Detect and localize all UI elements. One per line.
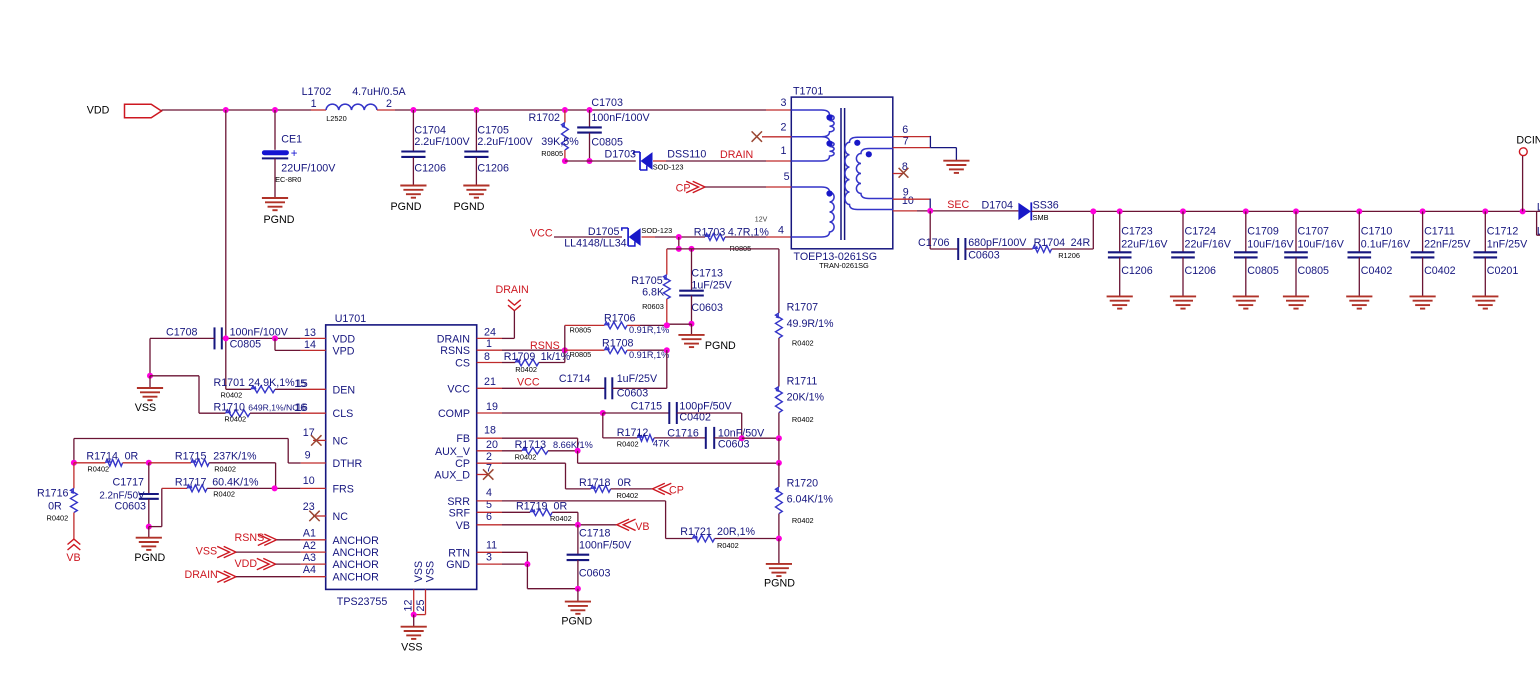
svg-text:R1712: R1712: [617, 427, 649, 439]
svg-text:9: 9: [305, 450, 311, 462]
svg-text:100nF/50V: 100nF/50V: [579, 539, 632, 551]
svg-text:C1714: C1714: [559, 373, 591, 385]
svg-text:R1706: R1706: [604, 313, 636, 325]
svg-text:DRAIN: DRAIN: [720, 149, 753, 161]
capacitor C1713: [679, 249, 732, 324]
svg-text:R0402: R0402: [213, 489, 235, 498]
svg-text:25: 25: [415, 600, 427, 612]
svg-text:C1705: C1705: [477, 124, 509, 136]
svg-text:R1716: R1716: [37, 487, 69, 499]
svg-text:10uF/16V: 10uF/16V: [1247, 239, 1294, 251]
wire 12V divider top: [778, 249, 780, 313]
svg-text:FRS: FRS: [333, 483, 354, 495]
svg-text:R0402: R0402: [792, 516, 814, 525]
capacitor C1717: [99, 463, 158, 527]
ground under C1709: [1233, 296, 1259, 308]
svg-text:1: 1: [780, 145, 786, 157]
node C1707-junction: [1293, 208, 1299, 214]
svg-text:R1206: R1206: [1058, 251, 1080, 260]
svg-text:C1713: C1713: [691, 268, 723, 280]
svg-text:R1705: R1705: [631, 275, 663, 287]
svg-text:VB: VB: [66, 552, 80, 564]
wire R1703 to T1701 pin4: [725, 236, 791, 238]
node R1708-right: [664, 347, 670, 353]
ground under C1710: [1346, 296, 1372, 308]
svg-text:2: 2: [486, 451, 492, 463]
svg-text:22uF/16V: 22uF/16V: [1185, 239, 1232, 251]
svg-text:D1705: D1705: [588, 226, 620, 238]
wire R1705 to C1713 bottom: [667, 324, 692, 335]
pin labels T1701 right: [902, 124, 914, 207]
svg-text:3: 3: [486, 552, 492, 564]
node CE1-junction: [272, 107, 278, 113]
resistor R1711: [776, 376, 825, 439]
svg-text:C0603: C0603: [691, 302, 723, 314]
svg-text:C1709: C1709: [1247, 226, 1279, 238]
svg-text:R0402: R0402: [617, 491, 639, 500]
port VDD anchor: [235, 558, 326, 570]
svg-text:C1724: C1724: [1185, 226, 1217, 238]
svg-text:C1703: C1703: [591, 97, 623, 109]
ground PGND under C1705: [454, 186, 490, 213]
resistor R1701: [214, 377, 326, 400]
resistor R1705: [631, 249, 670, 326]
svg-text:8.66K/1%: 8.66K/1%: [553, 440, 593, 450]
node 12V-junction: [676, 234, 682, 240]
capacitor C1714: [477, 350, 667, 399]
svg-text:R1721: R1721: [680, 526, 712, 538]
ground VSS under U1701: [401, 615, 427, 654]
svg-text:RSNS: RSNS: [440, 345, 470, 357]
node VDD-junction: [223, 107, 229, 113]
svg-text:18: 18: [484, 425, 496, 437]
svg-text:DSS110: DSS110: [667, 149, 706, 161]
resistor R1707: [776, 302, 835, 387]
svg-text:SOD-123: SOD-123: [641, 226, 672, 235]
svg-text:DRAIN: DRAIN: [496, 284, 529, 296]
svg-text:ANCHOR: ANCHOR: [333, 559, 380, 571]
svg-text:C0603: C0603: [617, 388, 649, 400]
resistor R1720: [776, 478, 834, 539]
svg-text:SEC: SEC: [947, 199, 969, 211]
wire divider middle: [778, 438, 780, 463]
svg-text:39K,5%: 39K,5%: [541, 136, 579, 148]
wire DRAIN to pin24: [477, 311, 515, 339]
svg-text:10: 10: [303, 475, 315, 487]
resistor R1715: [149, 451, 276, 489]
svg-text:R1720: R1720: [787, 478, 819, 490]
svg-text:R1709: R1709: [504, 351, 536, 363]
port DRAIN above U1701: [496, 284, 529, 311]
svg-text:FB: FB: [456, 433, 470, 445]
resistor R1704 snubber: [1033, 211, 1094, 259]
pin VSS stubs U1701: [403, 561, 437, 615]
svg-text:DCIN: DCIN: [1516, 135, 1540, 147]
svg-text:1: 1: [486, 338, 492, 350]
svg-text:10uF/16V: 10uF/16V: [1298, 239, 1345, 251]
svg-text:R0402: R0402: [224, 414, 246, 423]
svg-text:PGND: PGND: [764, 577, 795, 589]
label right edge nets: [1537, 201, 1540, 237]
svg-text:16: 16: [296, 402, 308, 414]
wire divider to R1720: [778, 463, 780, 487]
svg-text:PGND: PGND: [134, 552, 165, 564]
wire VCC to D1705: [554, 236, 622, 238]
svg-text:15: 15: [296, 378, 308, 390]
svg-text:C1206: C1206: [477, 163, 509, 175]
transformer T1701 box: [791, 86, 893, 271]
svg-text:R1718: R1718: [579, 477, 611, 489]
ground PGND under R1720: [764, 539, 795, 590]
capacitor C1705: [464, 110, 533, 186]
svg-text:C0805: C0805: [591, 137, 623, 149]
svg-text:SMB: SMB: [1033, 213, 1049, 222]
svg-text:11: 11: [486, 540, 497, 552]
wire RSNS pin1: [477, 340, 565, 352]
svg-text:0R: 0R: [618, 477, 632, 489]
svg-text:22uF/16V: 22uF/16V: [1121, 239, 1168, 251]
svg-text:R0402: R0402: [221, 391, 243, 400]
svg-text:COMP: COMP: [438, 408, 470, 420]
wire FB pin18: [477, 438, 578, 451]
svg-text:0.91R,1%: 0.91R,1%: [629, 325, 669, 335]
capacitor C1710: [1348, 211, 1411, 296]
svg-text:R1715: R1715: [175, 451, 207, 463]
svg-text:C1723: C1723: [1121, 226, 1153, 238]
svg-text:R1711: R1711: [787, 376, 818, 388]
node R1702-junction: [562, 107, 568, 113]
svg-text:4.7uH/0.5A: 4.7uH/0.5A: [352, 86, 406, 98]
label VCC net: [530, 228, 553, 240]
svg-text:20: 20: [486, 439, 498, 451]
svg-text:CS: CS: [455, 358, 470, 370]
svg-text:C1716: C1716: [667, 428, 699, 440]
resistor R1713: [477, 439, 593, 461]
svg-text:VSS: VSS: [135, 402, 156, 414]
wire T1701 pin7: [893, 147, 931, 149]
svg-text:20K/1%: 20K/1%: [787, 392, 825, 404]
resistor R1719: [477, 501, 578, 525]
capacitor C1703: [577, 97, 650, 161]
port VDD: [87, 104, 162, 117]
svg-text:4: 4: [778, 225, 784, 237]
svg-text:VCC: VCC: [447, 383, 470, 395]
wire D1705 to R1703: [642, 236, 705, 238]
svg-text:D1704: D1704: [982, 200, 1014, 212]
node R1704-junction: [1090, 208, 1096, 214]
node C1713-bottom: [689, 321, 695, 327]
svg-text:C1710: C1710: [1361, 226, 1393, 238]
svg-text:+: +: [291, 148, 298, 160]
svg-text:AUX_V: AUX_V: [435, 446, 471, 458]
inductor L1702: [302, 86, 407, 123]
svg-text:LL4148/LL34: LL4148/LL34: [564, 238, 626, 250]
svg-text:D1703: D1703: [605, 149, 637, 161]
node aux junctions: [676, 246, 695, 252]
pin labels T1701 left: [778, 97, 790, 237]
svg-text:ANCHOR: ANCHOR: [333, 535, 380, 547]
resistor R1714: [74, 451, 149, 474]
port VB right: [617, 519, 650, 533]
svg-text:TPS23755: TPS23755: [337, 596, 388, 608]
svg-text:SRF: SRF: [449, 507, 471, 519]
svg-text:A4: A4: [303, 564, 316, 576]
node C1715-C1716 junction: [739, 435, 745, 441]
wire VPD branch: [275, 338, 326, 350]
node divider-FB2-junction: [776, 460, 782, 466]
wire VB pin6: [477, 524, 617, 526]
wire VSS to R1710: [150, 376, 199, 413]
svg-text:PGND: PGND: [705, 340, 736, 352]
svg-text:DRAIN: DRAIN: [185, 569, 218, 581]
svg-text:VSS: VSS: [413, 561, 425, 582]
svg-text:R0805: R0805: [570, 350, 592, 359]
wire CP pin2: [477, 463, 591, 489]
svg-text:6: 6: [902, 124, 908, 136]
svg-text:6.8K: 6.8K: [642, 287, 665, 299]
svg-text:23: 23: [303, 501, 315, 513]
svg-text:PGND: PGND: [391, 201, 422, 213]
winding T1701 primary 3-2: [791, 110, 834, 137]
ground PGND under C1718: [561, 589, 592, 628]
svg-text:R0402: R0402: [515, 365, 537, 374]
svg-text:C0201: C0201: [1487, 265, 1519, 277]
wire 12V branch down: [678, 237, 680, 249]
resistor R1718: [579, 477, 653, 500]
ground under C1723: [1107, 296, 1133, 308]
svg-text:RTN: RTN: [448, 547, 470, 559]
resistor R1716: [37, 463, 77, 539]
wire C1708 to VSS: [149, 338, 151, 375]
svg-text:3: 3: [780, 97, 786, 109]
ground PGND under C1713: [678, 335, 736, 352]
svg-text:R0805: R0805: [541, 149, 563, 158]
node C1710-junction: [1356, 208, 1362, 214]
svg-text:14: 14: [304, 339, 316, 351]
node R1705-bottom: [664, 322, 670, 328]
svg-text:NC: NC: [333, 511, 349, 523]
svg-text:2: 2: [780, 122, 786, 134]
node VSS-ground-junction: [147, 373, 153, 379]
resistor R1712 and capacitor C1716: [603, 413, 765, 451]
svg-text:C0603: C0603: [579, 567, 611, 579]
svg-text:R0805: R0805: [570, 325, 592, 334]
pin2 T1701 no-connect: [752, 131, 792, 141]
svg-text:R0402: R0402: [717, 541, 739, 550]
svg-text:R1701: R1701: [214, 377, 246, 389]
svg-text:680pF/100V: 680pF/100V: [968, 237, 1027, 249]
svg-text:13: 13: [304, 327, 316, 339]
svg-text:T1701: T1701: [793, 86, 823, 98]
port CP at T1701 pin5: [676, 181, 705, 194]
svg-text:SOD-123: SOD-123: [653, 163, 684, 172]
svg-text:VDD: VDD: [235, 558, 258, 570]
wire aux rail: [667, 248, 779, 250]
svg-text:49.9R/1%: 49.9R/1%: [787, 318, 834, 330]
wire SRR pin4: [477, 501, 693, 539]
pin8 T1701 no-connect: [893, 168, 909, 178]
wire secondary output rail: [1031, 210, 1540, 212]
resistor R1708: [565, 337, 670, 360]
svg-text:24R: 24R: [1071, 237, 1091, 249]
svg-text:C1206: C1206: [1185, 265, 1217, 277]
ground under C1711: [1410, 296, 1436, 308]
svg-text:1: 1: [311, 98, 317, 110]
svg-text:A3: A3: [303, 552, 316, 564]
resistor R1706: [565, 313, 670, 336]
svg-text:R0402: R0402: [515, 453, 537, 462]
svg-text:20R,1%: 20R,1%: [717, 526, 756, 538]
svg-text:CP: CP: [455, 458, 470, 470]
svg-text:R1710: R1710: [214, 402, 246, 414]
svg-text:TRAN-0261SG: TRAN-0261SG: [819, 261, 869, 270]
svg-text:60.4K/1%: 60.4K/1%: [212, 476, 259, 488]
pin names U1701 left: [333, 333, 380, 583]
svg-text:24: 24: [484, 327, 496, 339]
capacitor C1706 snubber: [918, 211, 1033, 262]
svg-text:EC-8R0: EC-8R0: [275, 175, 301, 184]
ground under C1724: [1170, 296, 1196, 308]
node C1705-junction: [473, 107, 479, 113]
capacitor C1712: [1474, 211, 1529, 296]
svg-text:6.04K/1%: 6.04K/1%: [787, 494, 834, 506]
node C1717-bottom: [146, 524, 152, 530]
svg-text:VCC: VCC: [530, 228, 553, 240]
resistor R1717: [149, 476, 326, 526]
svg-text:CE1: CE1: [281, 134, 302, 146]
svg-text:PGND: PGND: [561, 616, 592, 628]
pin17 no-connect: [311, 435, 326, 445]
svg-text:24.9K,1%: 24.9K,1%: [248, 377, 295, 389]
wire pin6-7 to ground: [930, 136, 956, 161]
pin numbers U1701 right: [484, 327, 498, 564]
svg-text:CLS: CLS: [333, 408, 354, 420]
svg-text:VDD: VDD: [87, 105, 110, 117]
svg-text:R1714: R1714: [86, 451, 118, 463]
capacitor C1707: [1284, 211, 1345, 296]
svg-text:R1717: R1717: [175, 476, 207, 488]
svg-text:U1701: U1701: [335, 313, 367, 325]
svg-text:8: 8: [484, 351, 490, 363]
node C1704-junction: [410, 107, 416, 113]
port RSNS anchor: [235, 532, 326, 546]
svg-text:DRAIN: DRAIN: [437, 333, 470, 345]
svg-text:C0603: C0603: [718, 439, 750, 451]
wire right edge stub: [1537, 211, 1540, 235]
svg-text:PGND: PGND: [264, 214, 295, 226]
svg-text:12V: 12V: [755, 217, 768, 224]
node R1720-bottom: [776, 536, 782, 542]
wire T1701 pin6: [893, 136, 931, 138]
label DRAIN: [720, 149, 753, 161]
svg-text:12: 12: [403, 600, 415, 612]
node COMP-junction: [600, 410, 606, 416]
wire T1701 pin10 SEC: [893, 210, 1019, 212]
ground under C1707: [1283, 296, 1309, 308]
core T1701: [841, 108, 845, 240]
svg-text:C1717: C1717: [113, 476, 145, 488]
svg-text:VCC: VCC: [517, 377, 540, 389]
svg-text:100nF/100V: 100nF/100V: [230, 327, 289, 339]
label SEC: [947, 199, 969, 211]
svg-text:R0402: R0402: [792, 415, 814, 424]
node R1706-right: [664, 322, 670, 328]
svg-text:RSNS: RSNS: [235, 532, 265, 544]
svg-text:10: 10: [902, 195, 914, 207]
capacitor C1718: [567, 525, 633, 589]
node R1702-C1703 bottom junctions: [562, 158, 593, 164]
wire VDD vertical drop: [225, 110, 227, 389]
node GND-junction: [524, 561, 530, 567]
wire CP to T1701 pin5: [705, 186, 791, 188]
svg-text:C0402: C0402: [1361, 265, 1393, 277]
wire DTHR loop: [74, 439, 326, 464]
diode D1703: [605, 149, 707, 172]
capacitor C1711: [1411, 211, 1472, 296]
node SEC-junction: [927, 208, 933, 214]
label 12V: [755, 217, 768, 224]
svg-text:649R,1%/NC: 649R,1%/NC: [248, 403, 298, 413]
svg-text:100nF/100V: 100nF/100V: [591, 112, 650, 124]
svg-text:C0603: C0603: [115, 501, 147, 513]
svg-text:ANCHOR: ANCHOR: [333, 572, 380, 584]
svg-text:R1707: R1707: [787, 302, 819, 314]
svg-text:CP: CP: [676, 183, 691, 195]
svg-text:C0805: C0805: [230, 339, 262, 351]
capacitor C1708: [150, 327, 326, 351]
svg-text:0R: 0R: [48, 501, 62, 513]
node VB-junction: [575, 522, 581, 528]
svg-text:DTHR: DTHR: [333, 458, 363, 470]
svg-text:ANCHOR: ANCHOR: [333, 547, 380, 559]
pin numbers U1701 left: [294, 327, 316, 576]
op-amp U1701 box: [326, 313, 477, 608]
resistor R1721: [680, 526, 779, 550]
wire RTN pin11: [477, 552, 528, 564]
diode D1704: [982, 200, 1059, 222]
wire DRAIN net to T1701 pin1: [653, 160, 791, 162]
capacitor CE1: [262, 110, 336, 197]
node R1714-left: [71, 460, 77, 466]
svg-text:C0805: C0805: [1247, 265, 1279, 277]
svg-text:4: 4: [486, 487, 492, 499]
svg-text:GND: GND: [446, 559, 470, 571]
wire GND to PGND: [527, 564, 578, 589]
capacitor C1724: [1171, 211, 1232, 296]
port DRAIN anchor: [185, 569, 326, 582]
node C1718-bottom: [575, 586, 581, 592]
wire COMP pin19: [477, 412, 603, 414]
ground PGND under C1704: [391, 186, 427, 213]
capacitor C1715: [603, 400, 742, 438]
wire GND pin3: [477, 563, 528, 565]
svg-text:VPD: VPD: [333, 345, 355, 357]
ground secondary: [943, 161, 969, 173]
diode D1705: [564, 226, 672, 250]
node C1703-junction: [587, 107, 593, 113]
svg-text:C1706: C1706: [918, 237, 950, 249]
svg-text:L1702: L1702: [302, 86, 332, 98]
port VSS anchor: [196, 545, 326, 558]
svg-text:1uF/25V: 1uF/25V: [617, 373, 658, 385]
svg-text:R1708: R1708: [602, 337, 634, 349]
winding T1701 secondary 7-9: [856, 149, 892, 199]
node C1724-junction: [1180, 208, 1186, 214]
svg-text:C1715: C1715: [631, 400, 663, 412]
node FRS-junction: [272, 485, 278, 491]
pin names U1701 right: [434, 333, 470, 571]
svg-text:R0402: R0402: [214, 464, 236, 473]
